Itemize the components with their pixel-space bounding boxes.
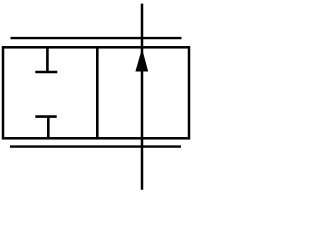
valve V1 body, left position square (ports blocked) (3, 47, 97, 138)
flow direction arrowhead (upward) on flow line (135, 49, 148, 72)
wire: vertical flow line through right square (141, 4, 144, 190)
blocked port symbol (bottom T) in left square (35, 117, 56, 139)
wire: top horizontal rail line (11, 37, 182, 39)
valve V1 body, right position square (free flow) (97, 47, 189, 138)
wire: bottom horizontal rail line (10, 145, 181, 147)
blocked port symbol (top T) in left square (35, 47, 57, 72)
